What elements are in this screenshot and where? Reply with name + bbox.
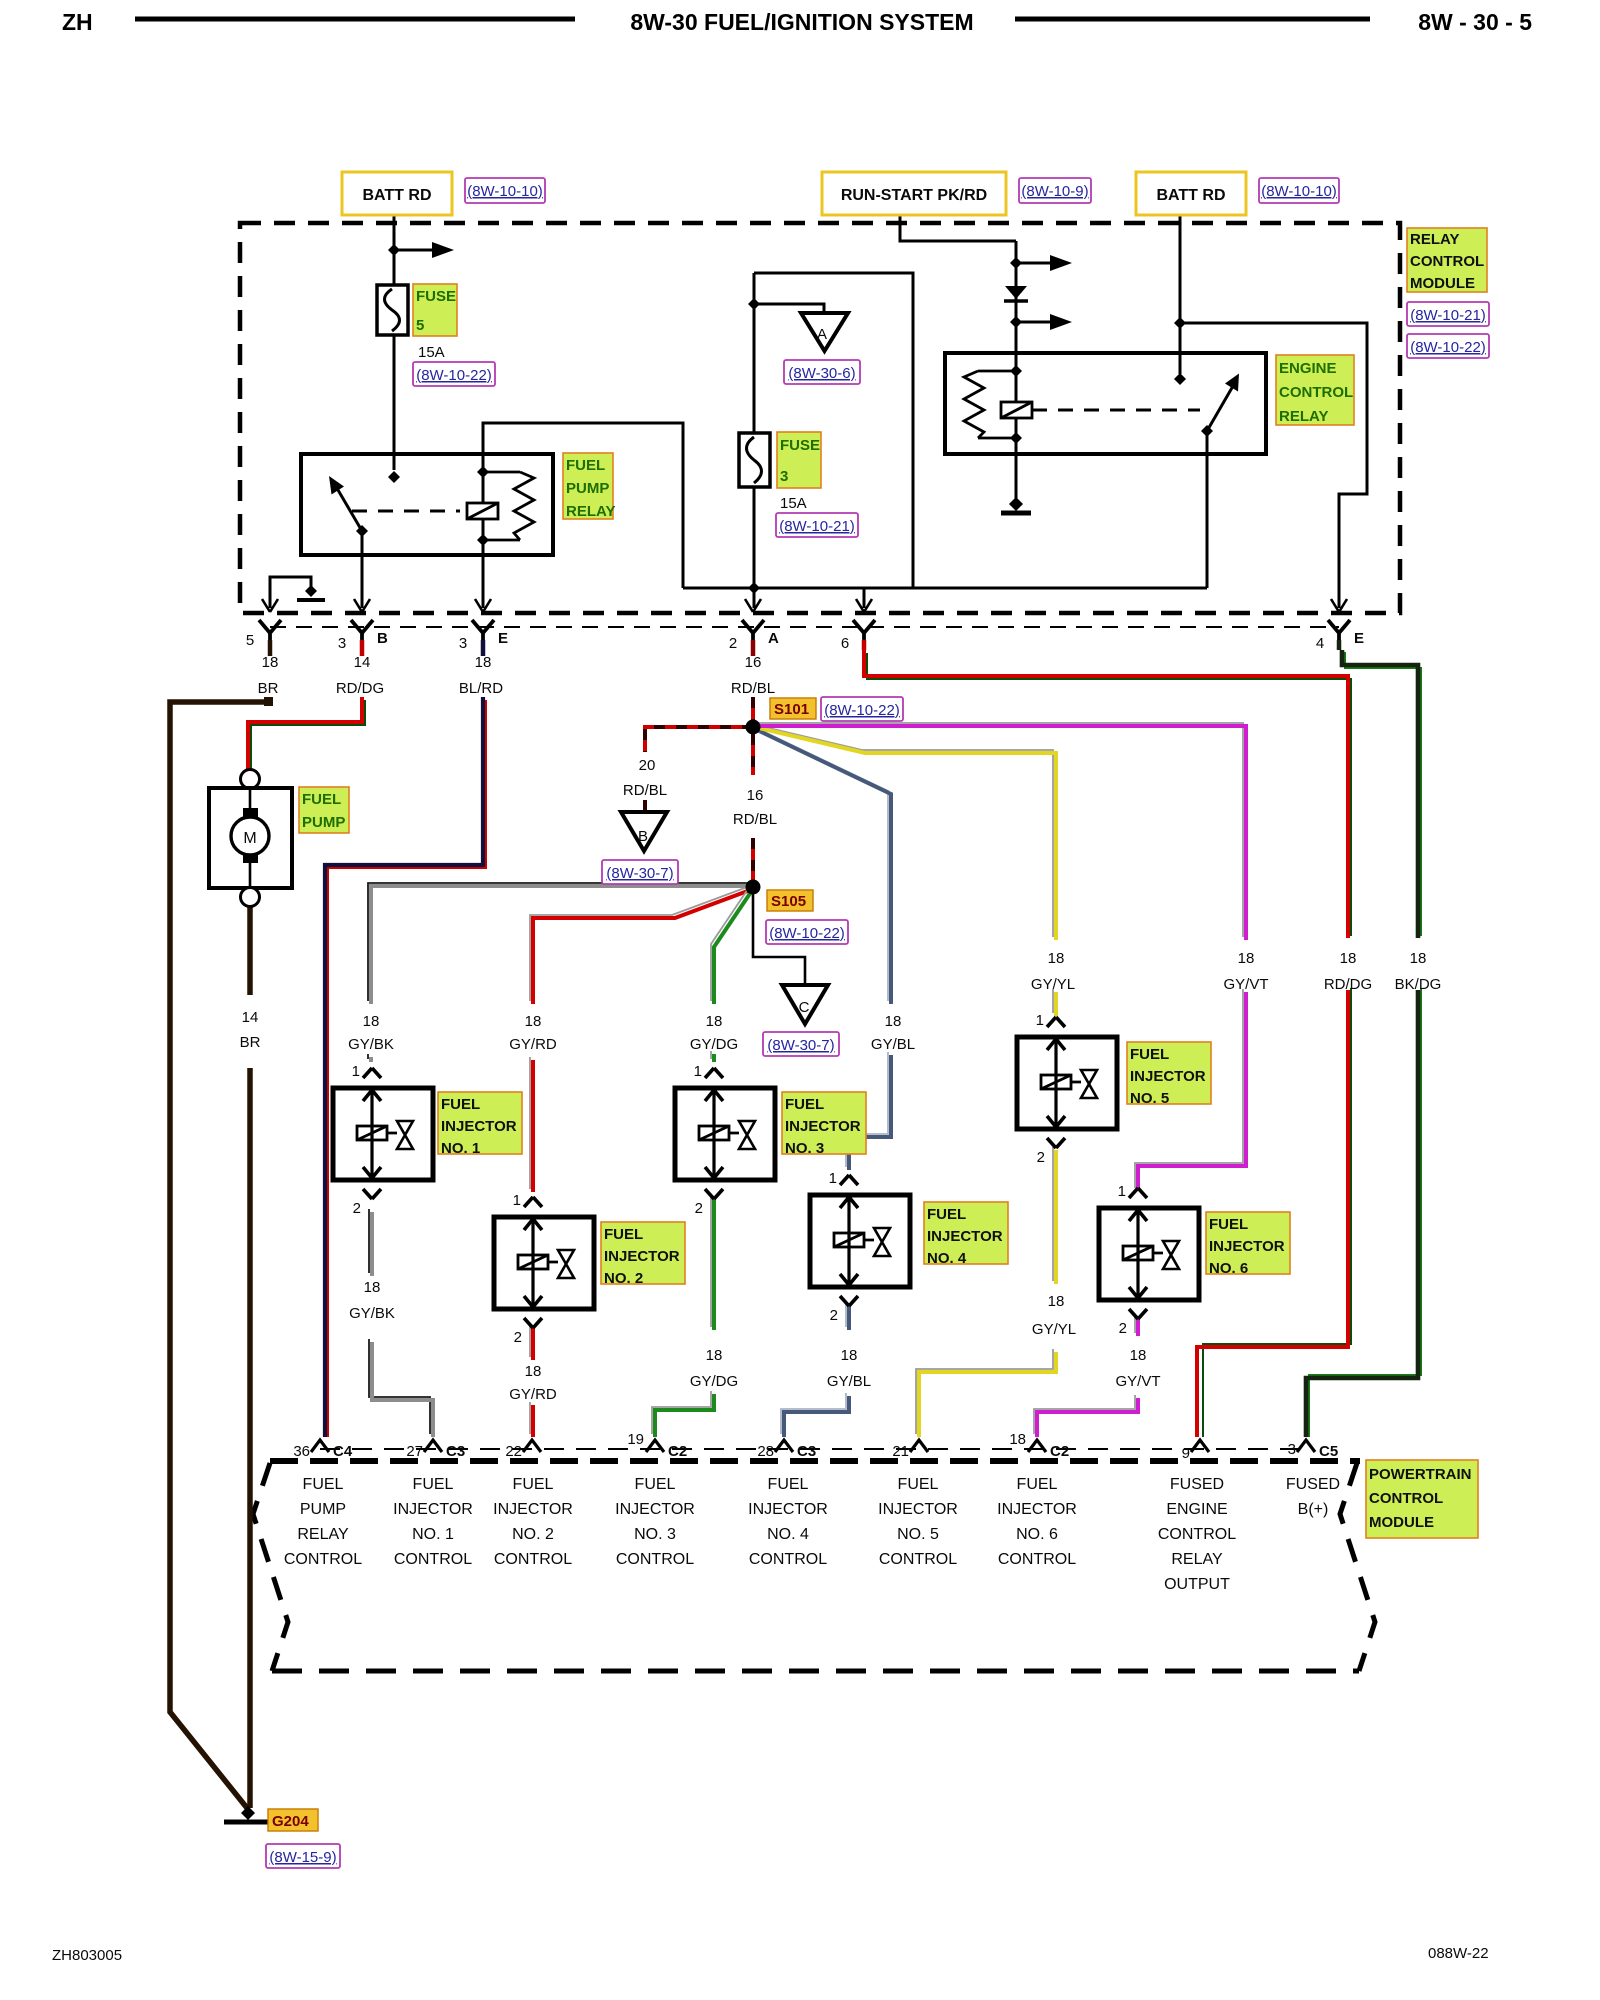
svg-text:S105: S105 [771, 893, 806, 910]
svg-text:18: 18 [885, 1013, 902, 1030]
svg-text:RELAY: RELAY [297, 1526, 349, 1543]
svg-text:FUEL: FUEL [1017, 1476, 1058, 1493]
svg-text:NO. 1: NO. 1 [412, 1526, 454, 1543]
svg-text:INJECTOR: INJECTOR [748, 1501, 828, 1518]
svg-text:INJECTOR: INJECTOR [1209, 1238, 1285, 1255]
svg-text:CONTROL: CONTROL [1369, 1490, 1443, 1507]
svg-text:2: 2 [1119, 1320, 1127, 1337]
svg-text:G204: G204 [272, 1813, 309, 1830]
svg-text:4: 4 [1316, 635, 1324, 652]
svg-text:RD/DG: RD/DG [336, 680, 384, 697]
svg-text:3: 3 [338, 635, 346, 652]
svg-text:RD/BL: RD/BL [623, 782, 667, 799]
svg-text:FUSED: FUSED [1170, 1476, 1224, 1493]
svg-text:RELAY: RELAY [1171, 1551, 1223, 1568]
svg-text:BATT RD: BATT RD [1156, 187, 1225, 204]
svg-text:RELAY: RELAY [1410, 231, 1459, 248]
svg-text:GY/VT: GY/VT [1223, 976, 1268, 993]
svg-text:1: 1 [829, 1170, 837, 1187]
svg-text:FUEL: FUEL [1209, 1216, 1248, 1233]
svg-text:C2: C2 [668, 1443, 687, 1460]
svg-text:2: 2 [1037, 1149, 1045, 1166]
svg-text:C3: C3 [797, 1443, 816, 1460]
svg-text:FUEL: FUEL [1130, 1046, 1169, 1063]
svg-text:BATT RD: BATT RD [362, 187, 431, 204]
svg-text:NO. 6: NO. 6 [1209, 1260, 1248, 1277]
svg-text:CONTROL: CONTROL [284, 1551, 362, 1568]
svg-text:1: 1 [1036, 1012, 1044, 1029]
svg-text:16: 16 [747, 787, 764, 804]
svg-text:INJECTOR: INJECTOR [927, 1228, 1003, 1245]
svg-text:14: 14 [354, 654, 371, 671]
svg-text:CONTROL: CONTROL [749, 1551, 827, 1568]
svg-text:20: 20 [639, 757, 656, 774]
svg-text:GY/RD: GY/RD [509, 1386, 557, 1403]
svg-text:CONTROL: CONTROL [394, 1551, 472, 1568]
svg-text:1: 1 [1118, 1183, 1126, 1200]
svg-text:(8W-10-9): (8W-10-9) [1021, 183, 1088, 200]
svg-text:5: 5 [246, 632, 254, 649]
svg-text:28: 28 [757, 1443, 774, 1460]
svg-text:CONTROL: CONTROL [879, 1551, 957, 1568]
svg-text:16: 16 [745, 654, 762, 671]
svg-text:18: 18 [1048, 950, 1065, 967]
svg-text:2: 2 [695, 1200, 703, 1217]
svg-text:18: 18 [525, 1013, 542, 1030]
svg-text:POWERTRAIN: POWERTRAIN [1369, 1466, 1472, 1483]
svg-text:18: 18 [841, 1347, 858, 1364]
svg-text:GY/BK: GY/BK [348, 1036, 394, 1053]
svg-text:INJECTOR: INJECTOR [1130, 1068, 1206, 1085]
svg-text:9: 9 [1182, 1445, 1190, 1462]
svg-text:18: 18 [363, 1013, 380, 1030]
svg-text:22: 22 [505, 1443, 522, 1460]
svg-text:FUSED: FUSED [1286, 1476, 1340, 1493]
svg-text:GY/YL: GY/YL [1032, 1321, 1076, 1338]
svg-text:E: E [498, 630, 508, 647]
svg-text:GY/RD: GY/RD [509, 1036, 557, 1053]
svg-text:18: 18 [525, 1363, 542, 1380]
svg-text:(8W-10-22): (8W-10-22) [416, 367, 492, 384]
svg-text:(8W-15-9): (8W-15-9) [269, 1849, 336, 1866]
svg-text:3: 3 [1288, 1441, 1296, 1458]
svg-text:2: 2 [514, 1329, 522, 1346]
svg-text:RD/DG: RD/DG [1324, 976, 1372, 993]
svg-text:NO. 6: NO. 6 [1016, 1526, 1058, 1543]
svg-text:088W-22: 088W-22 [1428, 1945, 1489, 1962]
svg-text:(8W-30-7): (8W-30-7) [767, 1037, 834, 1054]
svg-text:5: 5 [416, 317, 424, 334]
svg-text:PUMP: PUMP [302, 814, 345, 831]
svg-text:GY/DG: GY/DG [690, 1373, 738, 1390]
svg-text:3: 3 [780, 468, 788, 485]
svg-text:INJECTOR: INJECTOR [604, 1248, 680, 1265]
svg-text:NO. 4: NO. 4 [767, 1526, 809, 1543]
svg-text:PUMP: PUMP [566, 480, 609, 497]
svg-text:BR: BR [258, 680, 279, 697]
svg-text:15A: 15A [780, 495, 807, 512]
svg-text:CONTROL: CONTROL [998, 1551, 1076, 1568]
svg-text:PUMP: PUMP [300, 1501, 346, 1518]
svg-text:GY/BK: GY/BK [349, 1305, 395, 1322]
svg-text:GY/BL: GY/BL [871, 1036, 915, 1053]
svg-text:FUEL: FUEL [785, 1096, 824, 1113]
svg-text:BL/RD: BL/RD [459, 680, 503, 697]
svg-text:6: 6 [841, 635, 849, 652]
svg-text:RELAY: RELAY [1279, 408, 1328, 425]
svg-text:FUEL: FUEL [768, 1476, 809, 1493]
svg-text:B(+): B(+) [1298, 1501, 1329, 1518]
svg-text:MODULE: MODULE [1410, 275, 1475, 292]
svg-text:ENGINE: ENGINE [1279, 360, 1337, 377]
svg-text:INJECTOR: INJECTOR [441, 1118, 517, 1135]
svg-text:INJECTOR: INJECTOR [615, 1501, 695, 1518]
svg-text:FUEL: FUEL [604, 1226, 643, 1243]
svg-text:FUSE: FUSE [780, 437, 820, 454]
svg-text:RD/BL: RD/BL [733, 811, 777, 828]
svg-text:CONTROL: CONTROL [616, 1551, 694, 1568]
svg-text:36: 36 [293, 1443, 310, 1460]
svg-text:18: 18 [706, 1347, 723, 1364]
svg-text:MODULE: MODULE [1369, 1514, 1434, 1531]
svg-text:NO. 1: NO. 1 [441, 1140, 480, 1157]
svg-text:RELAY: RELAY [566, 503, 615, 520]
svg-text:18: 18 [262, 654, 279, 671]
svg-text:18: 18 [364, 1279, 381, 1296]
svg-text:15A: 15A [418, 344, 445, 361]
svg-text:(8W-30-6): (8W-30-6) [788, 365, 855, 382]
svg-text:18: 18 [1009, 1431, 1026, 1448]
svg-text:(8W-10-10): (8W-10-10) [1261, 183, 1337, 200]
svg-text:NO. 5: NO. 5 [897, 1526, 939, 1543]
svg-text:18: 18 [1048, 1293, 1065, 1310]
svg-text:21: 21 [892, 1443, 909, 1460]
svg-text:18: 18 [1238, 950, 1255, 967]
svg-text:B: B [638, 828, 648, 845]
svg-text:FUSE: FUSE [416, 288, 456, 305]
svg-text:2: 2 [353, 1200, 361, 1217]
svg-text:8W-30 FUEL/IGNITION SYSTEM: 8W-30 FUEL/IGNITION SYSTEM [630, 9, 973, 35]
svg-text:(8W-10-22): (8W-10-22) [1410, 339, 1486, 356]
svg-text:GY/VT: GY/VT [1115, 1373, 1160, 1390]
svg-text:FUEL: FUEL [927, 1206, 966, 1223]
svg-text:GY/DG: GY/DG [690, 1036, 738, 1053]
svg-text:A: A [817, 326, 827, 343]
svg-text:FUEL: FUEL [413, 1476, 454, 1493]
svg-text:ENGINE: ENGINE [1166, 1501, 1227, 1518]
svg-text:FUEL: FUEL [303, 1476, 344, 1493]
svg-text:OUTPUT: OUTPUT [1164, 1576, 1230, 1593]
svg-text:CONTROL: CONTROL [494, 1551, 572, 1568]
svg-text:18: 18 [706, 1013, 723, 1030]
svg-text:M: M [243, 830, 256, 847]
svg-text:GY/BL: GY/BL [827, 1373, 871, 1390]
svg-text:INJECTOR: INJECTOR [997, 1501, 1077, 1518]
svg-text:GY/YL: GY/YL [1031, 976, 1075, 993]
svg-text:NO. 3: NO. 3 [634, 1526, 676, 1543]
svg-text:18: 18 [475, 654, 492, 671]
svg-text:18: 18 [1130, 1347, 1147, 1364]
svg-text:FUEL: FUEL [566, 457, 605, 474]
svg-text:RD/BL: RD/BL [731, 680, 775, 697]
svg-text:18: 18 [1340, 950, 1357, 967]
svg-text:2: 2 [729, 635, 737, 652]
svg-text:B: B [377, 630, 388, 647]
svg-text:14: 14 [242, 1009, 259, 1026]
svg-text:(8W-10-22): (8W-10-22) [824, 702, 900, 719]
svg-text:C5: C5 [1319, 1443, 1338, 1460]
svg-text:8W - 30 - 5: 8W - 30 - 5 [1418, 9, 1532, 35]
svg-text:INJECTOR: INJECTOR [493, 1501, 573, 1518]
svg-text:C2: C2 [1050, 1443, 1069, 1460]
svg-text:NO. 3: NO. 3 [785, 1140, 824, 1157]
svg-text:NO. 4: NO. 4 [927, 1250, 967, 1267]
svg-text:INJECTOR: INJECTOR [393, 1501, 473, 1518]
svg-text:BK/DG: BK/DG [1395, 976, 1442, 993]
svg-text:FUEL: FUEL [513, 1476, 554, 1493]
svg-text:2: 2 [830, 1307, 838, 1324]
svg-text:1: 1 [352, 1063, 360, 1080]
svg-text:(8W-10-10): (8W-10-10) [467, 183, 543, 200]
svg-text:3: 3 [459, 635, 467, 652]
svg-text:ZH: ZH [62, 9, 93, 35]
svg-text:RUN-START PK/RD: RUN-START PK/RD [841, 187, 987, 204]
svg-text:27: 27 [406, 1443, 423, 1460]
svg-text:(8W-10-22): (8W-10-22) [769, 925, 845, 942]
svg-text:FUEL: FUEL [898, 1476, 939, 1493]
svg-text:A: A [768, 630, 779, 647]
svg-text:ZH803005: ZH803005 [52, 1947, 122, 1964]
svg-text:(8W-30-7): (8W-30-7) [606, 865, 673, 882]
svg-text:C: C [799, 999, 810, 1016]
svg-text:CONTROL: CONTROL [1279, 384, 1353, 401]
svg-text:NO. 2: NO. 2 [604, 1270, 643, 1287]
svg-text:(8W-10-21): (8W-10-21) [1410, 307, 1486, 324]
svg-text:CONTROL: CONTROL [1410, 253, 1484, 270]
svg-text:1: 1 [513, 1192, 521, 1209]
svg-text:19: 19 [627, 1431, 644, 1448]
svg-text:C3: C3 [446, 1443, 465, 1460]
svg-text:FUEL: FUEL [441, 1096, 480, 1113]
svg-text:INJECTOR: INJECTOR [878, 1501, 958, 1518]
svg-text:S101: S101 [774, 701, 809, 718]
svg-text:BR: BR [240, 1034, 261, 1051]
svg-text:INJECTOR: INJECTOR [785, 1118, 861, 1135]
svg-text:CONTROL: CONTROL [1158, 1526, 1236, 1543]
svg-text:1: 1 [694, 1063, 702, 1080]
svg-text:FUEL: FUEL [302, 791, 341, 808]
svg-text:C4: C4 [333, 1443, 353, 1460]
svg-text:NO. 2: NO. 2 [512, 1526, 554, 1543]
svg-text:(8W-10-21): (8W-10-21) [779, 518, 855, 535]
svg-text:NO. 5: NO. 5 [1130, 1090, 1169, 1107]
svg-text:E: E [1354, 630, 1364, 647]
svg-text:18: 18 [1410, 950, 1427, 967]
svg-text:FUEL: FUEL [635, 1476, 676, 1493]
